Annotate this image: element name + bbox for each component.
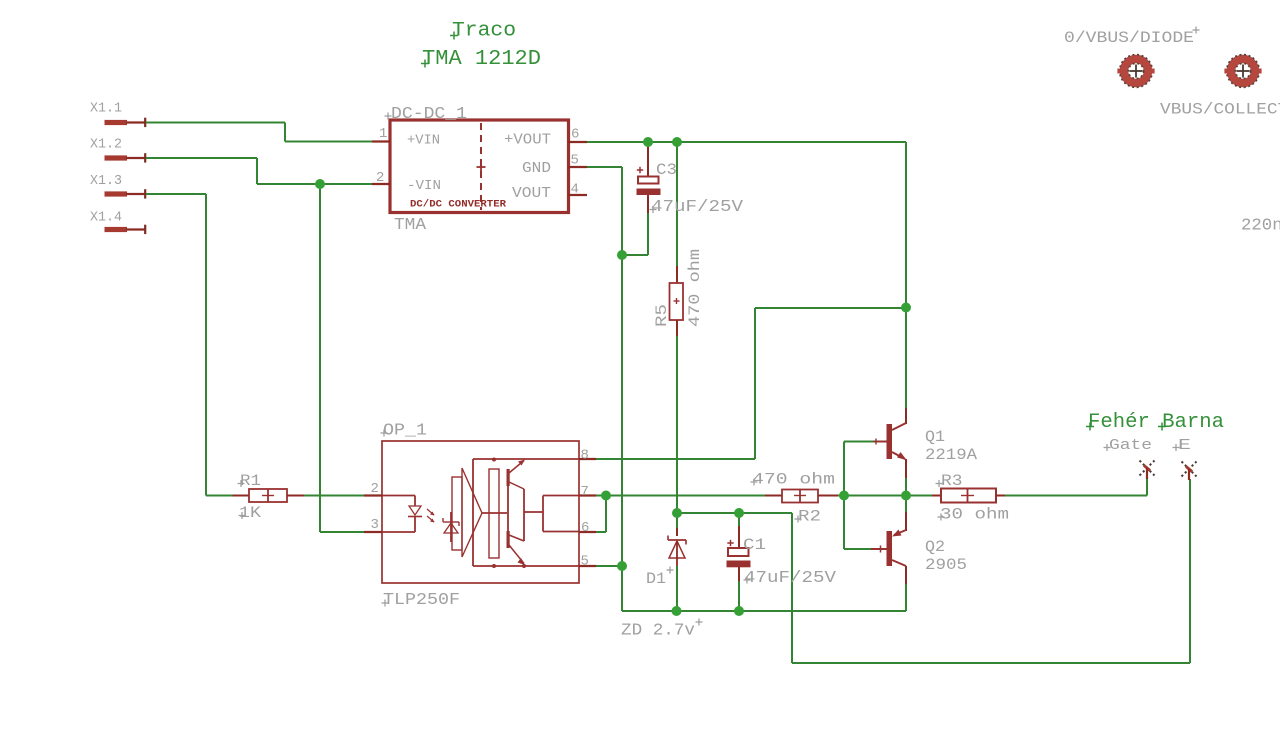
svg-text:1: 1	[379, 126, 387, 142]
svg-text:TMA 1212D: TMA 1212D	[422, 48, 541, 71]
svg-text:+VOUT: +VOUT	[504, 132, 551, 149]
svg-text:6: 6	[571, 127, 579, 143]
svg-text:Q1: Q1	[925, 428, 945, 446]
svg-text:5: 5	[581, 554, 589, 570]
svg-text:DC/DC CONVERTER: DC/DC CONVERTER	[410, 199, 506, 211]
svg-text:2219A: 2219A	[925, 446, 977, 464]
svg-text:X1.1: X1.1	[90, 101, 122, 117]
svg-text:VBUS/COLLECTO: VBUS/COLLECTO	[1160, 101, 1280, 119]
svg-text:470 ohm: 470 ohm	[686, 249, 704, 327]
svg-text:5: 5	[571, 153, 579, 169]
svg-text:R5: R5	[653, 304, 671, 327]
svg-text:47uF/25V: 47uF/25V	[744, 569, 837, 588]
svg-text:2905: 2905	[925, 556, 967, 574]
svg-text:R3: R3	[941, 472, 963, 490]
svg-text:C3: C3	[656, 161, 677, 179]
svg-text:4: 4	[571, 182, 579, 198]
svg-text:6: 6	[581, 520, 589, 536]
svg-text:VOUT: VOUT	[512, 185, 551, 202]
svg-text:-VIN: -VIN	[407, 178, 441, 194]
svg-text:X1.2: X1.2	[90, 137, 122, 153]
svg-text:8: 8	[581, 448, 589, 464]
svg-text:2: 2	[376, 170, 384, 186]
svg-text:Fehér Barna: Fehér Barna	[1088, 411, 1224, 434]
svg-text:TMA: TMA	[394, 216, 427, 235]
svg-text:+VIN: +VIN	[407, 133, 440, 149]
svg-text:47uF/25V: 47uF/25V	[651, 198, 744, 217]
svg-text:DC-DC_1: DC-DC_1	[391, 105, 467, 124]
svg-text:C1: C1	[743, 536, 766, 554]
svg-text:2: 2	[371, 481, 379, 497]
svg-text:220nF: 220nF	[1241, 217, 1280, 236]
svg-text:TLP250F: TLP250F	[383, 591, 460, 610]
svg-text:D1: D1	[646, 570, 666, 588]
svg-text:ZD 2.7v: ZD 2.7v	[621, 622, 695, 641]
svg-text:7: 7	[581, 484, 589, 500]
svg-text:GND: GND	[522, 160, 551, 177]
svg-text:Gate: Gate	[1109, 437, 1152, 454]
svg-text:3: 3	[371, 517, 379, 533]
svg-text:Traco: Traco	[452, 20, 516, 43]
svg-text:0/VBUS/DIODE: 0/VBUS/DIODE	[1064, 29, 1194, 47]
svg-text:E: E	[1178, 437, 1191, 454]
svg-text:R2: R2	[798, 508, 821, 526]
svg-text:30 ohm: 30 ohm	[940, 506, 1009, 524]
svg-text:R1: R1	[240, 472, 261, 490]
svg-text:X1.3: X1.3	[90, 173, 122, 189]
svg-text:Q2: Q2	[925, 538, 945, 556]
svg-text:470 ohm: 470 ohm	[752, 471, 835, 489]
svg-text:X1.4: X1.4	[90, 210, 122, 226]
svg-text:OP_1: OP_1	[383, 422, 427, 441]
